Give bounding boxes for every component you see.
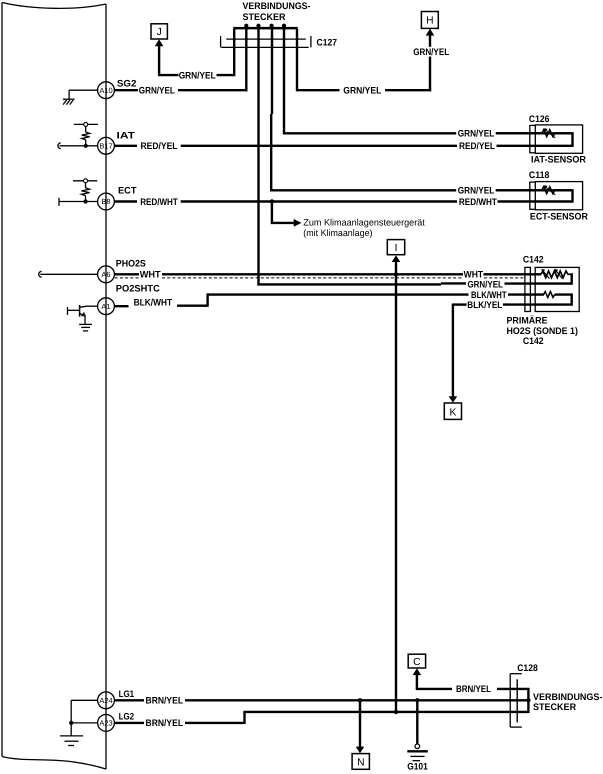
svg-text:LG1: LG1 — [119, 689, 135, 700]
svg-text:RED/YEL: RED/YEL — [141, 141, 178, 152]
box I — [387, 240, 404, 255]
svg-text:BRN/YEL: BRN/YEL — [146, 696, 184, 707]
svg-text:SG2: SG2 — [117, 79, 136, 90]
arrow into I — [392, 255, 401, 262]
svg-text:N: N — [357, 758, 364, 769]
svg-text:C142: C142 — [523, 336, 544, 347]
pin A23 — [98, 715, 115, 732]
junction connector C128 — [510, 674, 530, 727]
svg-text:GRN/YEL: GRN/YEL — [467, 280, 503, 291]
svg-text:C: C — [413, 657, 421, 668]
pin A24 — [98, 692, 115, 709]
box C — [408, 654, 425, 668]
B8 thermistor stub — [59, 179, 98, 206]
junction dot LG1/N branch — [358, 698, 362, 702]
arrow into K — [449, 396, 458, 403]
box J — [151, 24, 167, 39]
svg-text:ECT-SENSOR: ECT-SENSOR — [530, 211, 588, 222]
svg-text:A10: A10 — [99, 86, 112, 95]
HO2S sensing element — [541, 269, 572, 285]
svg-text:A1: A1 — [101, 302, 110, 311]
svg-text:B8: B8 — [101, 197, 110, 206]
wire C127 pin3 down to HO2S GRN/YEL — [257, 29, 571, 286]
svg-text:C128: C128 — [517, 663, 538, 674]
wire A6 WHT — [114, 273, 541, 275]
svg-text:GRN/YEL: GRN/YEL — [179, 71, 216, 82]
wire B17 RED/YEL — [114, 132, 572, 147]
arrow to A/C control — [294, 219, 302, 227]
wire C to C128 (BRN/YEL) — [416, 675, 529, 689]
label VERBINDUNGS-STECKER (C127) — [243, 1, 311, 23]
IAT thermistor element — [496, 128, 573, 138]
box H — [421, 12, 438, 29]
ECU connector band outline — [2, 3, 106, 770]
wire C127 pin5 to IAT GRN/YEL — [283, 29, 573, 134]
ECU internal ground for LG1/LG2 — [60, 700, 98, 745]
svg-text:VERBINDUNGS-: VERBINDUNGS- — [243, 1, 311, 12]
svg-text:WHT: WHT — [140, 270, 161, 281]
svg-text:H: H — [426, 16, 433, 27]
svg-text:(mit Klimaanlage): (mit Klimaanlage) — [303, 228, 372, 238]
wire A1 BLK/WHT — [114, 295, 544, 307]
svg-text:J: J — [157, 27, 162, 38]
svg-text:PRIMÄRE: PRIMÄRE — [507, 315, 548, 327]
long vertical wire to I — [395, 261, 397, 712]
box N — [352, 754, 369, 770]
wire C127 pin4 to ECT GRN/YEL — [270, 29, 572, 191]
wire to ground G101 — [416, 700, 418, 744]
arrow into J — [155, 39, 164, 46]
PRIMARY HO2S connector C142 — [525, 267, 579, 311]
svg-text:PO2SHTC: PO2SHTC — [116, 283, 160, 294]
svg-text:C142: C142 — [523, 254, 544, 265]
junction connector C127 body — [221, 24, 311, 48]
arrow into H — [426, 29, 435, 36]
svg-text:WHT: WHT — [464, 270, 484, 281]
svg-text:RED/WHT: RED/WHT — [459, 197, 497, 208]
arrow into C — [413, 668, 422, 675]
A1 driver transistor — [68, 305, 98, 331]
label Zum Klimaanlagensteuergeraet — [303, 218, 425, 238]
HO2S heater element — [503, 292, 573, 305]
svg-text:GRN/YEL: GRN/YEL — [139, 86, 175, 97]
branch wire to A/C control unit — [271, 202, 294, 223]
pin B17 — [98, 137, 115, 154]
svg-text:GRN/YEL: GRN/YEL — [458, 129, 495, 140]
wire B8 RED/WHT — [114, 189, 572, 202]
wire LG2 BRN/YEL — [114, 712, 528, 724]
svg-text:A6: A6 — [101, 270, 110, 279]
svg-text:IAT-SENSOR: IAT-SENSOR — [531, 155, 586, 166]
ECT thermistor element — [496, 185, 573, 195]
wire branch to N — [359, 700, 361, 747]
svg-text:I: I — [395, 243, 398, 254]
arrow into N — [356, 747, 365, 754]
pin A6 — [98, 266, 115, 283]
label PRIMAERE HO2S — [507, 315, 578, 348]
svg-text:PHO2S: PHO2S — [116, 259, 146, 270]
svg-text:BRN/YEL: BRN/YEL — [146, 718, 184, 729]
svg-text:BLK/YEL: BLK/YEL — [467, 300, 502, 311]
svg-text:K: K — [449, 408, 456, 419]
pin A10 — [98, 82, 115, 99]
svg-text:RED/WHT: RED/WHT — [140, 197, 178, 208]
wire C127 pin1 to J (GRN/YEL) — [158, 29, 234, 76]
pin A1 — [98, 298, 115, 315]
svg-text:B17: B17 — [99, 141, 112, 150]
wire BLK/YEL to K — [453, 304, 467, 397]
svg-text:STECKER: STECKER — [533, 702, 576, 713]
svg-text:GRN/YEL: GRN/YEL — [413, 47, 449, 58]
junction dot RED/WHT branch — [270, 199, 274, 203]
ground G101 — [407, 744, 428, 772]
svg-text:GRN/YEL: GRN/YEL — [343, 86, 381, 97]
wire LG1 BRN/YEL — [114, 699, 528, 701]
svg-text:BLK/WHT: BLK/WHT — [134, 297, 173, 308]
junction dot LG2/I wire — [394, 710, 398, 714]
svg-text:LG2: LG2 — [119, 711, 135, 722]
svg-text:C127: C127 — [317, 37, 338, 48]
wire C127 pin6 to H (GRN/YEL) — [297, 29, 431, 91]
svg-text:G101: G101 — [407, 761, 428, 772]
junction dot WHT / I wire — [394, 272, 398, 276]
svg-text:STECKER: STECKER — [243, 12, 286, 23]
shield dashed line — [115, 277, 525, 279]
label VERBINDUNGS-STECKER (C128) — [533, 692, 602, 713]
IAT-SENSOR box — [535, 125, 582, 153]
svg-text:Zum Klimaanlagensteuergerät: Zum Klimaanlagensteuergerät — [303, 218, 425, 228]
svg-text:ECT: ECT — [118, 186, 137, 197]
svg-text:C118: C118 — [529, 170, 550, 181]
ECT-SENSOR box — [535, 182, 582, 210]
pin B8 — [98, 193, 115, 210]
junction dot LG1/G101 branch — [415, 698, 419, 702]
svg-text:BRN/YEL: BRN/YEL — [456, 684, 491, 695]
ECT-SENSOR connector bracket C118 — [530, 182, 536, 210]
svg-text:C126: C126 — [529, 114, 550, 125]
wire C127 pin2 to A10 (GRN/YEL SG2) — [114, 29, 247, 91]
box K — [444, 403, 461, 419]
svg-text:A24: A24 — [99, 696, 112, 705]
A6 stub wire left — [39, 271, 98, 277]
IAT-SENSOR connector bracket C126 — [530, 125, 536, 153]
svg-text:GRN/YEL: GRN/YEL — [458, 186, 495, 197]
A10 chassis ground — [63, 90, 98, 104]
svg-text:RED/YEL: RED/YEL — [459, 141, 495, 152]
B17 thermistor stub — [58, 122, 98, 148]
svg-text:A23: A23 — [99, 719, 112, 728]
svg-text:IAT: IAT — [117, 131, 136, 142]
